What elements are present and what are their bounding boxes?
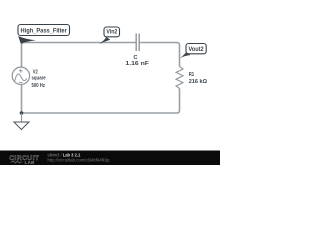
svg-text:LAB: LAB [25,160,35,165]
svg-text:500 Hz: 500 Hz [32,83,46,89]
node label Vin2 pointer [99,37,111,44]
svg-text:square: square [32,76,47,82]
svg-text:Vin2: Vin2 [106,30,117,36]
node label Vout2 pointer [180,51,190,58]
V2 plus sign [19,69,23,73]
svg-text:http://circuitlab.com/c6t4bfk4: http://circuitlab.com/c6t4bfk4fk3p [48,157,111,162]
CircuitLab logo resistor zigzag [11,161,23,163]
wire resistor bottom to bottom-right corner to ground junction [22,89,180,114]
voltage source V2 circle [12,67,29,84]
footer black bar [0,151,220,166]
svg-text:R1: R1 [189,72,195,78]
V2 sine waveform [15,74,27,81]
resistor R1 zigzag [176,67,183,89]
wire from capacitor right plate to right corner down to resistor [139,43,179,67]
svg-text:High_Pass_Filter: High_Pass_Filter [21,28,68,34]
V2 minus sign [19,81,23,83]
svg-text:Vout2: Vout2 [189,47,205,53]
node label High_Pass_Filter pointer [18,36,36,44]
node label High_Pass_Filter box [18,25,70,36]
node label Vin2 box [104,27,120,37]
wire top from node A to capacitor left plate [22,43,136,68]
ground stub wire [21,113,23,122]
svg-text:1.16 nF: 1.16 nF [125,61,149,67]
junction dot at ground node [20,111,24,115]
capacitor C plates [136,34,139,52]
svg-text:216 kΩ: 216 kΩ [189,79,208,85]
svg-text:V2: V2 [33,69,38,75]
wire V2 bottom to junction [21,85,23,114]
node label Vout2 box [186,44,206,54]
ground symbol triangle [14,122,29,130]
